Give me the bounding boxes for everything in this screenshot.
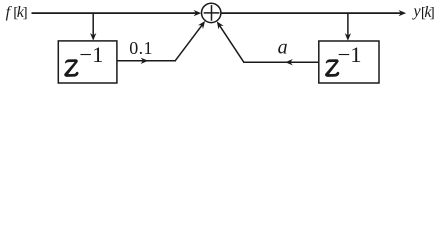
arrowhead at output [399, 10, 407, 16]
block: left delay z^-1 [58, 41, 117, 83]
wire: branch down to left delay [92, 13, 94, 38]
block: right delay z^-1 [319, 41, 379, 83]
op: summing junction circle [202, 3, 221, 22]
svg-text:−1: −1 [338, 42, 362, 67]
label z^-1 right [325, 59, 339, 77]
svg-text:]: ] [23, 5, 28, 21]
svg-text:f: f [6, 4, 13, 21]
arrowhead into right box top [345, 33, 351, 41]
svg-text:a: a [278, 36, 288, 58]
wire: diagonal up to summer (0.1 path) [175, 23, 204, 61]
svg-text:0.1: 0.1 [129, 38, 153, 58]
wire: branch down to right delay [347, 13, 349, 38]
arrowhead mid path a (pointing left) [285, 59, 293, 65]
arrowhead into summer left [194, 10, 202, 16]
arrowhead into summer lower-right [214, 20, 223, 30]
arrowhead into left box top [90, 33, 96, 41]
arrowhead mid path 0.1 [141, 58, 149, 64]
label z^-1 left [64, 59, 78, 77]
wire: summer to output y[k] [222, 12, 404, 14]
arrowhead into summer lower-left [198, 19, 208, 29]
wire: right delay output (gain a path), horizontal leftward [244, 61, 319, 63]
wire: diagonal up-left to summer (a path) [218, 23, 244, 63]
wire: left delay output (gain 0.1 path), horizontal [117, 60, 175, 62]
wire: input f[k] to summing junction [32, 12, 199, 14]
svg-text:]: ] [430, 5, 435, 21]
svg-text:−1: −1 [79, 42, 103, 67]
plus sign inside summer [204, 12, 220, 14]
